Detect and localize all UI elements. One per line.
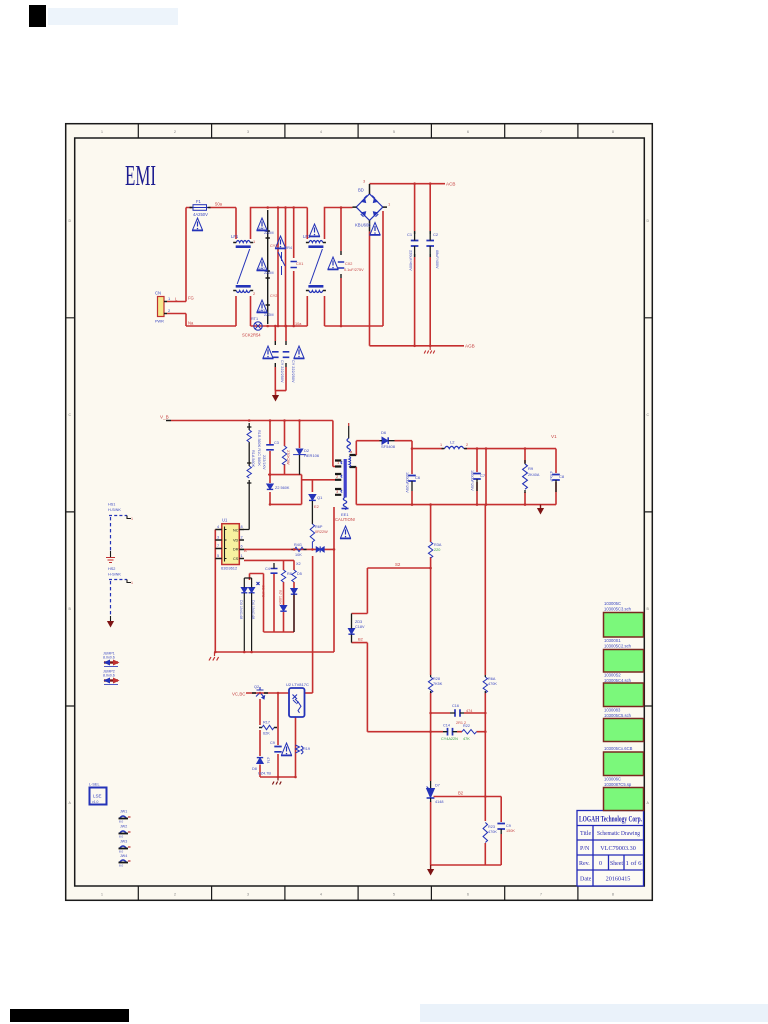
choke LF2	[306, 241, 326, 293]
sheet symbol block 3	[604, 683, 644, 707]
svg-text:X2: X2	[296, 562, 301, 566]
svg-text:C9: C9	[270, 741, 275, 745]
wire: left leg down	[259, 699, 261, 725]
sheet outer border	[66, 124, 653, 901]
wire: x334 vertical	[333, 507, 335, 652]
svg-text:2R4: 2R4	[285, 246, 292, 250]
svg-text:U2 LTV817C: U2 LTV817C	[286, 682, 309, 687]
gate resistor on y549.4	[295, 547, 304, 551]
sheet inner border	[75, 138, 645, 886]
svg-text:R3A: R3A	[434, 543, 442, 547]
black cluster line with pads	[266, 210, 431, 367]
wire: S horizontal	[367, 567, 430, 569]
svg-text:1030087C5.sp: 1030087C5.sp	[604, 782, 632, 787]
wire: choke LF1 verticals	[236, 208, 307, 327]
scribble symbol right	[296, 745, 304, 754]
wire: bottom rail	[431, 864, 502, 866]
svg-text:JW3: JW3	[120, 840, 127, 844]
svg-text:V_B: V_B	[160, 415, 169, 420]
sheet symbol block 1	[604, 613, 644, 638]
svg-text:4A250V: 4A250V	[193, 212, 208, 217]
svg-text:B: B	[244, 548, 247, 553]
svg-text:Date: Date	[580, 877, 592, 883]
svg-text:UZ4.7B: UZ4.7B	[258, 772, 271, 776]
svg-text:7: 7	[540, 893, 542, 897]
svg-text:S2: S2	[395, 562, 401, 567]
svg-text:3: 3	[217, 536, 219, 540]
zone letters sides	[69, 219, 650, 805]
resistor R bleed	[523, 464, 528, 489]
sheet symbol block 4	[604, 719, 644, 742]
wire: sub network below IC	[264, 560, 295, 632]
transformer T1	[335, 423, 356, 517]
snubber cap C3	[266, 445, 274, 450]
svg-text:50a: 50a	[215, 202, 223, 207]
primary ground symbol	[209, 652, 219, 661]
wire: snubber cap branch	[269, 421, 271, 475]
svg-text:222M: 222M	[264, 313, 274, 317]
svg-text:8.0: 8.0	[119, 820, 124, 824]
svg-text:C4: C4	[265, 567, 270, 571]
sheet symbol block 6	[604, 788, 644, 811]
wire: snubber resistor branch	[284, 421, 286, 475]
svg-text:Q1: Q1	[317, 495, 323, 500]
svg-text:VC,BC: VC,BC	[232, 692, 245, 697]
cap on y713	[455, 709, 460, 717]
svg-text:Schematic Drawing: Schematic Drawing	[597, 830, 640, 837]
svg-text:1 of 6: 1 of 6	[626, 860, 642, 867]
svg-text:C6: C6	[415, 475, 421, 480]
svg-text:D3 1N4148: D3 1N4148	[239, 600, 243, 619]
svg-text:D4 1N4148: D4 1N4148	[251, 600, 255, 619]
diode marks on edges	[361, 196, 379, 217]
choke LF1	[233, 241, 253, 293]
wire: x430 to zener	[430, 713, 432, 781]
zone numerals bottom	[101, 893, 614, 897]
svg-text:D5: D5	[297, 572, 302, 576]
bridge pads	[353, 184, 388, 231]
svg-text:CS: CS	[233, 557, 239, 561]
svg-text:103005C2.sch: 103005C2.sch	[604, 644, 632, 649]
cap + resistor on y731.7	[448, 728, 453, 736]
svg-text:0R22W: 0R22W	[315, 530, 328, 534]
wire: choke LF2 to bridge	[325, 208, 384, 327]
svg-text:2: 2	[466, 443, 468, 447]
svg-text:474: 474	[266, 757, 270, 763]
svg-text:20160415: 20160415	[606, 876, 631, 883]
svg-text:2: 2	[174, 893, 176, 897]
svg-text:H-SINK: H-SINK	[108, 573, 121, 577]
svg-text:Na: Na	[188, 321, 194, 326]
svg-text:C7: C7	[480, 473, 486, 478]
svg-text:1000uF/25V: 1000uF/25V	[405, 472, 409, 493]
inductor L2	[445, 446, 464, 448]
svg-text:CX2: CX2	[345, 262, 352, 266]
sense resistor on x312	[310, 524, 314, 549]
svg-text:3: 3	[247, 130, 249, 134]
wire: to transformer pin2	[302, 479, 335, 481]
svg-text:R4G: R4G	[294, 543, 302, 547]
svg-text:103005C: 103005C	[604, 601, 621, 606]
diode D1	[382, 437, 388, 444]
faint bar bottom right	[420, 1004, 768, 1022]
spark gap symbol mid cluster	[278, 252, 285, 275]
svg-text:2R1 2: 2R1 2	[456, 721, 466, 725]
IC internal pin bars	[225, 527, 227, 562]
svg-text:1: 1	[131, 581, 133, 585]
svg-text:1000uF/25V: 1000uF/25V	[470, 470, 474, 491]
wire: Y-cap cluster verticals	[278, 208, 294, 327]
svg-text:5: 5	[393, 130, 395, 134]
aux coil top	[348, 423, 350, 426]
svg-text:C5 472: C5 472	[261, 585, 265, 597]
svg-text:U1: U1	[222, 518, 228, 523]
wire: mid rails between chokes	[251, 208, 308, 327]
svg-text:6: 6	[241, 545, 243, 549]
svg-text:L2: L2	[450, 440, 455, 445]
svg-text:222M: 222M	[264, 271, 274, 275]
heat-sink net 2	[107, 567, 133, 628]
wire: snubber bottom H	[268, 474, 302, 476]
svg-text:222M: 222M	[264, 231, 274, 235]
viewer UI bar bottom-left	[10, 1009, 129, 1022]
wire: left vertical from CN live	[185, 208, 187, 302]
svg-text:H-SINK: H-SINK	[108, 508, 121, 512]
left pin pads	[335, 461, 341, 495]
cap C11	[473, 474, 481, 480]
wire: primary ground rail	[215, 651, 335, 653]
wire: L2 to out	[465, 448, 557, 450]
wire: second IC rail y560.4	[244, 559, 294, 561]
svg-text:8: 8	[612, 130, 614, 134]
svg-text:R1A 560K: R1A 560K	[251, 450, 255, 468]
svg-text:2: 2	[174, 130, 176, 134]
svg-text:68uF/400V: 68uF/400V	[435, 250, 439, 269]
bridge rectifier BD1	[356, 194, 383, 221]
MOSFET-ish diode on x312	[309, 495, 316, 501]
svg-text:BD: BD	[358, 188, 364, 193]
zone numerals top	[101, 130, 614, 134]
svg-text:1: 1	[101, 893, 103, 897]
svg-text:NC: NC	[233, 529, 239, 533]
CN1 connector	[155, 291, 194, 326]
cap on x501 bottom	[497, 824, 505, 830]
sheet cream area	[66, 124, 653, 901]
optocoupler U2	[286, 682, 309, 717]
wire: opto leg	[295, 717, 297, 777]
warning triangles EMI	[192, 218, 203, 231]
NTC thermistor	[242, 317, 262, 338]
divider resistors y677-691	[428, 677, 432, 693]
svg-text:3: 3	[247, 893, 249, 897]
svg-text:5: 5	[393, 893, 395, 897]
svg-text:R28: R28	[433, 677, 440, 681]
svg-text:62K: 62K	[263, 732, 270, 736]
svg-text:D7: D7	[435, 784, 440, 788]
wire: bridge bottom to -V rail	[370, 232, 465, 346]
wire: IC left vertical	[214, 530, 216, 653]
wire: x485 long leg	[484, 505, 486, 797]
warning triangle	[281, 743, 292, 756]
wire: cap legs	[411, 449, 413, 505]
svg-text:150K: 150K	[506, 829, 515, 833]
rail down arrow	[540, 505, 542, 509]
wire: sense chain x312	[311, 480, 313, 493]
caps/diodes sub network	[271, 569, 278, 574]
left winding arcs	[341, 462, 342, 493]
svg-text:7K5K: 7K5K	[433, 682, 443, 686]
wire: zener out right	[434, 796, 502, 798]
svg-text:1: 1	[101, 130, 103, 134]
junction dots	[266, 206, 269, 209]
svg-text:LSE: LSE	[93, 794, 102, 799]
zener on x270	[267, 484, 273, 489]
svg-text:V1: V1	[551, 434, 557, 439]
IC pins	[215, 530, 244, 559]
resistor on x485 bottom	[483, 823, 487, 843]
svg-text:8: 8	[241, 525, 243, 529]
svg-text:CX1: CX1	[296, 262, 303, 266]
svg-text:C18V: C18V	[355, 625, 365, 629]
svg-text:270K2W: 270K2W	[286, 450, 290, 465]
svg-text:8.0: 8.0	[119, 835, 124, 839]
svg-text:CY 222/250V: CY 222/250V	[280, 360, 284, 383]
core bar	[344, 459, 347, 498]
earth arrow below CY pair	[272, 395, 279, 402]
L-SEL box	[89, 783, 107, 805]
PWM IC U1	[222, 524, 240, 565]
svg-text:8.0: 8.0	[119, 850, 124, 854]
svg-text:8.0x0.6: 8.0x0.6	[103, 674, 115, 678]
svg-text:103006C: 103006C	[604, 777, 621, 782]
svg-text:8: 8	[612, 893, 614, 897]
svg-text:HS1: HS1	[108, 503, 115, 507]
svg-text:SCK2R54: SCK2R54	[242, 333, 261, 338]
bottom strip zone dividers	[138, 886, 578, 900]
svg-text:Sheet: Sheet	[610, 861, 623, 867]
svg-text:1: 1	[241, 554, 243, 558]
svg-text:0.1uF/275V: 0.1uF/275V	[344, 268, 364, 272]
svg-text:C14: C14	[443, 724, 450, 728]
svg-text:C3: C3	[274, 441, 279, 445]
svg-text:C9: C9	[506, 824, 511, 828]
svg-text:470uF: 470uF	[549, 471, 553, 482]
snubber resistor R2	[282, 446, 286, 465]
svg-text:C16: C16	[452, 704, 459, 708]
wire: drop to transformer pin1	[333, 421, 335, 467]
svg-text:0: 0	[599, 861, 602, 867]
svg-text:10300S1: 10300S1	[604, 638, 621, 643]
svg-text:4: 4	[320, 130, 322, 134]
bulk capacitor C1	[411, 241, 434, 247]
svg-text:LF1: LF1	[231, 234, 239, 239]
svg-text:HER106: HER106	[304, 453, 320, 458]
svg-text:7: 7	[217, 544, 219, 548]
startup resistor chain	[244, 423, 251, 530]
wire: mid leg	[277, 693, 279, 777]
wire: X-cap line after LF2	[340, 208, 342, 327]
sheet symbol block 2	[604, 650, 644, 673]
cluster tiny labels	[270, 244, 364, 326]
svg-text:EMI: EMI	[125, 160, 156, 192]
svg-text:CY2: CY2	[270, 294, 277, 298]
svg-text:C8: C8	[559, 474, 565, 479]
svg-text:4: 4	[217, 525, 219, 529]
svg-text:47K: 47K	[463, 737, 470, 741]
svg-text:63D3612: 63D3612	[221, 566, 238, 571]
svg-text:103005C4.sch: 103005C4.sch	[604, 678, 632, 683]
wire: CY pair below rail	[275, 326, 286, 395]
zener jog diode	[348, 629, 354, 635]
svg-text:Q2: Q2	[254, 685, 259, 689]
Y-caps on cluster	[272, 262, 344, 358]
wire: winding to D1	[356, 441, 379, 455]
svg-text:2K40A: 2K40A	[528, 473, 540, 477]
bottom coil	[343, 498, 346, 510]
svg-text:103005Cx.6CB: 103005Cx.6CB	[604, 746, 633, 751]
svg-text:KBU606: KBU606	[355, 223, 371, 228]
svg-text:ACB: ACB	[446, 182, 455, 187]
svg-text:D8: D8	[252, 767, 257, 771]
svg-text:10a: 10a	[295, 322, 302, 326]
svg-text:F1: F1	[196, 199, 202, 204]
svg-text:R7 100K: R7 100K	[278, 590, 282, 605]
snubber diode D2	[293, 449, 306, 455]
cap C12	[552, 475, 560, 481]
svg-text:VD: VD	[233, 539, 239, 543]
svg-text:R19: R19	[303, 747, 310, 751]
svg-text:4: 4	[320, 893, 322, 897]
svg-text:222/1KV: 222/1KV	[262, 455, 266, 470]
wire: output bottom rail	[356, 504, 556, 506]
svg-text:AGB: AGB	[465, 344, 475, 349]
wire: snubber diode branch	[299, 421, 301, 449]
fuse F1	[190, 199, 223, 217]
wire: top rail to choke LF1	[186, 208, 236, 240]
wire: legs to bottom	[431, 797, 502, 866]
svg-text:103005C3.sch: 103005C3.sch	[604, 607, 632, 612]
svg-text:6: 6	[467, 130, 469, 134]
svg-text:JW4: JW4	[120, 854, 127, 858]
side strip zone dividers	[66, 318, 653, 706]
svg-text:10K: 10K	[295, 553, 302, 557]
svg-text:B2: B2	[458, 791, 464, 796]
svg-text:FG: FG	[188, 296, 194, 301]
svg-text:C2: C2	[433, 232, 439, 237]
svg-text:JW1: JW1	[120, 810, 127, 814]
svg-text:R6P: R6P	[315, 525, 323, 529]
title block table	[577, 811, 644, 887]
svg-text:2: 2	[241, 536, 243, 540]
feedback resistor horizontal	[259, 721, 277, 736]
heat-sink net 1	[106, 503, 133, 563]
svg-text:Z2 560K: Z2 560K	[275, 486, 290, 490]
svg-text:1030083: 1030083	[604, 708, 621, 713]
wire: RC link y731.7	[367, 731, 485, 733]
svg-text:1: 1	[131, 517, 133, 521]
wire: sense divider leg x430	[430, 505, 432, 568]
svg-text:R1B 560K R1C 560K: R1B 560K R1C 560K	[257, 430, 261, 466]
wire: x430 down	[430, 568, 432, 713]
svg-text:DR: DR	[233, 548, 239, 552]
svg-text:5: 5	[217, 554, 219, 558]
svg-text:470K: 470K	[488, 682, 497, 686]
transistor symbol on VCC rail	[256, 687, 265, 699]
cap C10	[408, 476, 416, 482]
svg-text:CY4A22N: CY4A22N	[441, 737, 458, 741]
faint toolbar stripe top	[48, 8, 178, 25]
wire: VCC rail	[246, 692, 289, 694]
wire: cap link y713	[431, 712, 486, 714]
svg-text:P/N: P/N	[580, 846, 590, 852]
svg-text:ZD3: ZD3	[355, 620, 362, 624]
block labels	[604, 601, 633, 787]
svg-text:8.0: 8.0	[119, 864, 124, 868]
svg-text:E2: E2	[314, 504, 320, 509]
svg-text:4148: 4148	[435, 800, 443, 804]
svg-text:103005C5.sch: 103005C5.sch	[604, 713, 632, 718]
wire: CN pin stubs	[167, 302, 186, 327]
svg-text:1: 1	[440, 443, 442, 447]
svg-text:v1.0: v1.0	[92, 800, 99, 804]
wire: bridge right down	[382, 211, 384, 326]
double arrow jumper 1	[103, 652, 120, 667]
sense resistor on x430 top	[428, 542, 432, 558]
svg-text:R23: R23	[488, 825, 495, 829]
svg-text:SF5408: SF5408	[381, 444, 396, 449]
svg-text:LOGAH Technology Corp.: LOGAH Technology Corp.	[579, 815, 642, 824]
jumper column	[119, 810, 131, 868]
wire: x312 down to VCC	[312, 556, 314, 693]
wire: bridge top rail +V_B	[370, 183, 446, 185]
wire: output rail to L2	[412, 448, 444, 450]
svg-text:CY 222/250V: CY 222/250V	[291, 360, 295, 383]
svg-text:474: 474	[466, 709, 472, 713]
bottom arrow	[430, 865, 432, 869]
svg-text:Rev.: Rev.	[579, 861, 590, 867]
double arrow jumper 2	[103, 670, 120, 685]
wire: V_B top rail	[171, 420, 333, 422]
svg-text:R6A: R6A	[488, 677, 496, 681]
wire: bulk cap verticals	[415, 184, 431, 346]
svg-text:7: 7	[540, 130, 542, 134]
wire: winding bottom leg	[355, 467, 357, 505]
zener ZD1	[427, 787, 435, 799]
svg-text:CN: CN	[155, 291, 161, 296]
svg-text:L-SEL: L-SEL	[89, 783, 100, 787]
right pin pads	[350, 455, 357, 467]
top strip zone dividers	[138, 124, 578, 138]
wire: zener jog left	[352, 568, 368, 614]
svg-text:220: 220	[434, 548, 440, 552]
svg-text:B2: B2	[358, 637, 364, 642]
svg-text:R17: R17	[263, 721, 270, 725]
svg-text:470K: 470K	[488, 830, 497, 834]
svg-text:D6: D6	[381, 430, 387, 435]
svg-text:220uF/400V: 220uF/400V	[409, 250, 413, 271]
sheet symbol block 5	[604, 752, 644, 776]
dual diode pair left	[241, 588, 254, 593]
svg-text:JW2: JW2	[120, 825, 127, 829]
svg-text:6: 6	[467, 893, 469, 897]
svg-text:8.0x0.6: 8.0x0.6	[103, 656, 115, 660]
svg-text:VLC79003.30: VLC79003.30	[600, 845, 636, 852]
wire: zener leg	[270, 475, 302, 505]
zener ZD2	[257, 758, 263, 764]
wire: after D1	[395, 441, 413, 449]
wire: bottom rail	[260, 776, 296, 778]
svg-text:10300S2: 10300S2	[604, 673, 621, 678]
